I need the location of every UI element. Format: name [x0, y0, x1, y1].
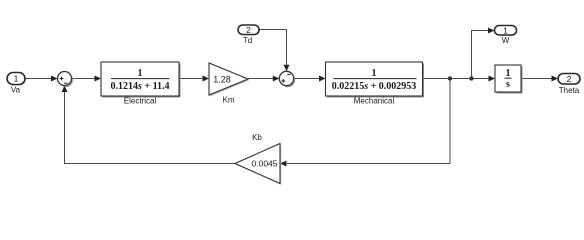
- svg-text:0.1214s + 11.4: 0.1214s + 11.4: [110, 81, 169, 92]
- svg-text:s: s: [506, 79, 510, 90]
- svg-text:2: 2: [567, 74, 572, 84]
- svg-text:0.02215s + 0.002953: 0.02215s + 0.002953: [332, 81, 417, 92]
- svg-text:1.28: 1.28: [213, 75, 231, 85]
- svg-text:Mechanical: Mechanical: [354, 97, 395, 106]
- svg-text:1: 1: [14, 74, 19, 84]
- svg-text:1: 1: [506, 68, 511, 79]
- svg-text:Td: Td: [243, 36, 252, 45]
- svg-text:Kb: Kb: [252, 133, 262, 142]
- svg-text:W: W: [502, 36, 510, 45]
- svg-text:1: 1: [503, 25, 508, 35]
- svg-text:Km: Km: [223, 96, 235, 105]
- svg-text:0.0045: 0.0045: [252, 159, 278, 169]
- svg-text:Electrical: Electrical: [124, 97, 157, 106]
- svg-text:1: 1: [138, 68, 143, 79]
- svg-text:1: 1: [372, 68, 377, 79]
- svg-text:Va: Va: [11, 86, 21, 95]
- svg-text:Theta: Theta: [559, 86, 580, 95]
- svg-text:2: 2: [246, 25, 251, 35]
